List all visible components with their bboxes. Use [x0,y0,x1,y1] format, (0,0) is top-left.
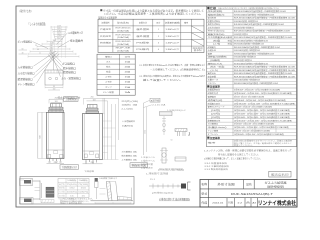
right elevation top dims [84,97,119,114]
svg-text:52: 52 [57,38,61,40]
right side port labels top [122,99,139,111]
svg-text:60: 60 [22,48,24,50]
page frame [16,6,297,207]
spec table tall last row [208,139,293,147]
svg-text:15.1: 15.1 [150,179,155,181]
bracket shelf [118,188,132,201]
right elevation flue [86,105,99,114]
spec table header ■設置基準 [207,136,297,147]
spec table rows section 2 [207,88,297,136]
svg-text:103: 103 [93,99,96,101]
note below spec table 3 [204,156,262,160]
svg-text:103(75): 103(75) [78,192,89,194]
svg-text:130: 130 [57,30,61,32]
svg-text:(16A/20A): (16A/20A) [117,43,130,46]
svg-text:RUF-SE2405: RUF-SE2405 [116,41,131,43]
svg-text:78: 78 [57,35,61,37]
installation table [98,19,204,52]
svg-text:1.3kPa以下: 1.3kPa以下 [165,42,179,45]
svg-text:RUF-SE1615SAU(B)-T: RUF-SE1615SAU(B)-T [231,192,274,196]
right elevation bottom stubs [83,160,103,174]
svg-text:D寸法: D寸法 [59,194,65,197]
spec table header ■付属品 [207,85,297,89]
caption 排水口付近図 [58,95,81,99]
spec table header ■仕様 [207,6,297,10]
title row2 model number [201,192,273,196]
svg-text:77: 77 [39,53,41,55]
right side port labels bottom [122,150,138,162]
floor line and dims [91,201,134,204]
label 給湯接続口 [63,70,77,74]
svg-text:リモコン: リモコン [208,82,217,85]
svg-text:RUF-SE: RUF-SE [116,48,133,50]
left elevation bottom label box [60,165,79,169]
Rinnai company name [258,199,297,207]
svg-text:詳細は工事説明書参照。: 詳細は工事説明書参照。 [60,202,84,205]
svg-text:100: 100 [53,89,56,91]
title row3 cells [201,198,257,207]
detail left notes [141,155,155,170]
svg-text:250: 250 [91,97,94,99]
bracket table notes [58,198,94,206]
small left dims [19,45,41,55]
svg-text:262: 262 [50,48,54,50]
dark mount block [46,187,54,197]
label 入水管接続口 [18,65,34,69]
left elevation flue cap [51,104,62,108]
label ふろ追焚接続口 [61,76,82,80]
bottom-view dimension stack [28,26,79,59]
svg-text:103(75): 103(75) [67,192,78,194]
svg-text:250: 250 [55,98,58,100]
label ガス接続口 [62,61,76,65]
caption 連結図 [28,22,48,26]
right side port labels middle [122,119,135,127]
svg-text:150: 150 [81,188,86,190]
label 排水電磁弁 [58,38,84,47]
svg-text:46: 46 [37,49,39,51]
stamp box 販売店 [269,171,291,177]
svg-text:2024.01: 2024.01 [212,203,224,205]
svg-text:(16A/20A): (16A/20A) [117,36,130,39]
svg-text:B寸法: B寸法 [59,187,65,190]
svg-text:207: 207 [50,45,54,47]
svg-text:1.3kPa以下: 1.3kPa以下 [165,35,179,38]
svg-text:148: 148 [50,43,54,45]
hatch strip below block [41,200,54,203]
label 入水電磁弁 [57,31,84,45]
note below spec table 2 [218,153,260,157]
svg-text:75(105): 75(105) [67,184,78,186]
title block frame [200,180,297,208]
svg-text:20A機種: 20A機種 [79,179,88,182]
detail figure A striped bar [160,108,187,135]
title row1 cells [201,180,287,189]
svg-text:104: 104 [57,33,61,35]
leader lines to port labels [34,51,63,84]
svg-text:1.3kPa以下: 1.3kPa以下 [165,48,179,51]
svg-text:(16A/20A): (16A/20A) [117,30,130,33]
svg-text:60: 60 [53,86,55,88]
svg-text:2-1.15 15A: 2-1.15 15A [152,103,166,106]
left elevation bottom stubs [47,159,65,165]
label ドレン用接続口 [18,82,36,86]
label 給湯管接続口 [18,77,34,81]
svg-text:4: 4 [158,49,159,51]
label ポンプ用接続口 [18,39,48,48]
svg-text:40: 40 [22,52,24,54]
note below spec table 1 [204,149,292,153]
svg-text:(16A/20A): (16A/20A) [117,49,130,52]
small notes bottom left of stamp [204,161,229,171]
svg-text:RUF-SE2005: RUF-SE2005 [116,34,131,36]
note line 1 [100,8,204,12]
svg-text:リンナイ株式会社: リンナイ株式会社 [258,199,297,207]
detail figure C valve pipe [158,148,186,172]
svg-text:1.3kPa以下: 1.3kPa以下 [165,28,179,31]
svg-text:16A機種: 16A機種 [67,179,76,182]
svg-text:J: J [188,132,190,137]
svg-text:250: 250 [54,162,57,164]
caption 設置区分表 [98,16,118,20]
svg-text:外形寸法図: 外形寸法図 [218,182,236,186]
bracket table [58,179,89,198]
right elevation body [83,114,103,160]
svg-text:2: 2 [158,36,159,38]
right elevation bottom label box [130,163,148,168]
left elevation top dims [49,98,63,104]
top-left note (取付とめ) [20,9,32,13]
svg-text:ガスふろ給湯器: ガスふろ給湯器 [265,181,288,185]
right elevation side dim chain [103,98,119,159]
svg-text:3: 3 [158,43,159,45]
svg-text:(取付けとめ): (取付けとめ) [20,9,32,13]
detail dim chain lines [144,103,147,155]
svg-text:(105): (105) [132,101,139,103]
svg-text:15: 15 [70,195,74,197]
flue terminal detail [146,171,191,201]
svg-text:25: 25 [35,45,37,47]
svg-text:15: 15 [81,195,85,197]
connection size table [97,54,135,95]
svg-text:A寸法: A寸法 [59,183,65,186]
tray figure 1 [20,179,33,186]
wall section hatched [106,182,118,201]
bottom view box [45,56,63,91]
wall mount figure [95,176,118,199]
note line 2 [101,12,203,16]
spec table outer [207,6,297,146]
svg-text:C寸法: C寸法 [59,191,65,194]
tray figure 2 [20,198,34,205]
boxed label A部詳細 [144,98,167,107]
svg-text:RUF-SE1615: RUF-SE1615 [116,28,131,30]
label 給水接続口 [63,66,77,70]
detail figure B pi shape [171,129,191,142]
svg-text:「しくみでの連結図」: 「しくみでの連結図」 [28,22,48,26]
note block ※1 ※2 [139,63,205,82]
svg-text:150: 150 [69,188,74,190]
pipe run [33,181,42,201]
left elevation top label box [64,97,79,102]
svg-text:75(105): 75(105) [78,184,89,186]
svg-text:103: 103 [55,101,58,103]
label ふろ戻り接続口 [18,71,36,75]
bottom-left box frame [20,177,134,205]
svg-text:250: 250 [91,162,94,164]
svg-text:185: 185 [57,28,61,30]
left elevation body [47,112,65,158]
spec table rows section 1 [207,9,297,136]
svg-text:600: 600 [40,135,42,138]
left elevation flue collar [49,107,64,112]
left elevation height dim 600 [38,112,47,158]
svg-text:1554: 1554 [144,130,146,134]
svg-text:243: 243 [57,26,61,28]
svg-text:1: 1 [158,29,159,31]
svg-text:15A(R1/2): 15A(R1/2) [122,124,134,127]
svg-text:50: 50 [171,140,173,142]
